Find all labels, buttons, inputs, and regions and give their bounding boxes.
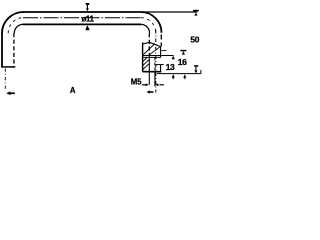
- flange hatch: [144, 44, 156, 55]
- foot step line: [143, 56, 161, 58]
- svg-text:ø11: ø11: [82, 14, 95, 23]
- dim phi11 bottom arrow: [86, 25, 89, 28]
- section left edge: [142, 43, 144, 72]
- extension line for dim 50 (top): [141, 11, 197, 13]
- handle tube top edge: [23, 11, 142, 13]
- right leg hidden wall upper: [148, 33, 150, 55]
- left leg hidden edge (dashed): [13, 33, 15, 67]
- foot right edge lower: [160, 65, 162, 72]
- left cutting-plane centerline: [4, 69, 6, 91]
- svg-text:16: 16: [178, 57, 187, 67]
- dim 16 top bar: [180, 50, 186, 52]
- right bend inner arc: [141, 24, 150, 33]
- dim 13 bottom arrow: [172, 74, 175, 78]
- dim phi11 top bar: [86, 3, 90, 5]
- thread hole right wall hidden: [154, 58, 156, 72]
- baseline extension: [157, 73, 201, 75]
- dim 16 bottom arrow: [183, 74, 186, 78]
- handle tube bottom edge: [23, 23, 142, 25]
- left leg bottom end: [1, 66, 15, 68]
- svg-text:A: A: [70, 86, 76, 95]
- wall hatch: [143, 58, 147, 62]
- dim phi11 top arrow: [86, 5, 88, 9]
- right section arrow: [150, 91, 153, 93]
- dim 50 top arrow: [194, 13, 197, 16]
- ext line for dim 16: [162, 50, 167, 52]
- right leg centerline: [155, 30, 157, 92]
- dim 50 bottom arrow: [195, 66, 197, 70]
- M5 leader arrow left: [160, 84, 164, 86]
- foot flange right edge: [160, 47, 162, 58]
- svg-text:M5: M5: [131, 77, 142, 86]
- dim 16 top arrow: [182, 51, 185, 54]
- stud right wall: [154, 72, 156, 87]
- right bend outer arc: [141, 12, 162, 33]
- thread depth line: [156, 64, 164, 66]
- left bend centerline arc: [8, 18, 23, 34]
- dim 13 top arrow: [172, 56, 175, 60]
- flange bottom + ext line for 13: [143, 55, 174, 57]
- left bend outer arc: [2, 12, 24, 33]
- dim 50 top bar: [193, 10, 199, 12]
- thread hole left wall: [148, 55, 150, 84]
- tube centerline: [23, 17, 141, 19]
- M5 leader arrow right: [142, 84, 146, 86]
- dim 50 bottom bar: [194, 65, 198, 67]
- right bend centerline arc: [141, 18, 156, 33]
- baseline riser: [200, 70, 202, 74]
- svg-text:13: 13: [166, 62, 175, 72]
- foot flange outline: [143, 42, 161, 46]
- right outer edge dashed stub: [160, 35, 162, 47]
- foot bottom edge: [143, 71, 162, 73]
- left section arrow: [10, 92, 15, 94]
- left leg outer edge: [1, 33, 3, 68]
- left bend inner arc: [14, 24, 23, 33]
- svg-text:50: 50: [190, 35, 199, 45]
